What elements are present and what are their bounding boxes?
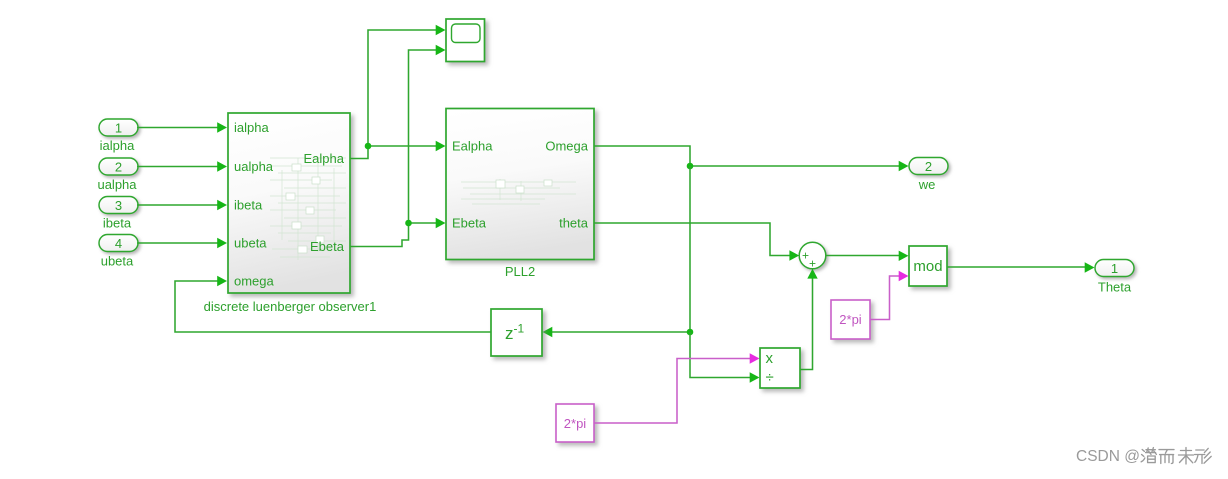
- wire inport 1 to observer: [137, 122, 227, 132]
- wire 2*pi lower to divide: [594, 353, 760, 423]
- svg-text:ualpha: ualpha: [97, 177, 137, 192]
- wire 2*pi upper to mod: [870, 271, 909, 320]
- svg-text:Ealpha: Ealpha: [304, 151, 345, 166]
- scope block: [446, 19, 485, 62]
- junction dot delay: [687, 329, 694, 336]
- svg-text:we: we: [918, 177, 936, 192]
- wire inport 2 to observer: [137, 161, 227, 171]
- svg-text:mod: mod: [913, 258, 942, 275]
- junction dot Ealpha: [365, 143, 372, 150]
- wire sum to mod: [826, 251, 909, 261]
- ghost contents PLL2: [461, 179, 576, 204]
- svg-text:discrete luenberger observer1: discrete luenberger observer1: [204, 299, 377, 314]
- svg-text:PLL2: PLL2: [505, 264, 535, 279]
- svg-text:4: 4: [115, 236, 122, 251]
- svg-text:Ealpha: Ealpha: [452, 139, 493, 154]
- sum block: [799, 242, 826, 269]
- svg-text:+: +: [809, 257, 816, 271]
- inport 3: [99, 197, 138, 214]
- svg-text:Ebeta: Ebeta: [310, 239, 345, 254]
- block mod: [909, 246, 947, 286]
- wire mod to outport Theta: [947, 262, 1095, 272]
- svg-text:2*pi: 2*pi: [564, 416, 587, 431]
- svg-text:Omega: Omega: [545, 139, 588, 154]
- block PLL2: [446, 109, 594, 260]
- outport we: [909, 158, 948, 175]
- wire to outport we: [690, 161, 909, 171]
- wire Ealpha out: [350, 146, 368, 159]
- svg-text:ibeta: ibeta: [103, 216, 132, 231]
- svg-text:ubeta: ubeta: [101, 254, 134, 269]
- wire Ebeta out: [350, 223, 409, 247]
- wire unit delay to omega: [175, 276, 491, 332]
- wire theta to sum: [594, 223, 799, 261]
- ghost contents observer: [270, 158, 346, 260]
- svg-text:ialpha: ialpha: [234, 120, 269, 135]
- svg-text:omega: omega: [234, 274, 275, 289]
- constant 2*pi lower: [556, 404, 594, 442]
- inport 4: [99, 235, 138, 252]
- svg-text:theta: theta: [559, 216, 589, 231]
- wire to PLL2 Ealpha: [368, 141, 446, 151]
- svg-text:÷: ÷: [766, 369, 774, 386]
- svg-text:-1: -1: [514, 322, 525, 336]
- scope screen: [452, 24, 481, 43]
- svg-text:2: 2: [115, 159, 122, 174]
- svg-text:Theta: Theta: [1098, 280, 1132, 295]
- svg-text:ialpha: ialpha: [100, 138, 135, 153]
- wire inport 3 to observer: [137, 200, 227, 210]
- wire to unit delay: [543, 327, 691, 337]
- block discrete luenberger observer1: [228, 113, 350, 293]
- block divide: [760, 348, 800, 388]
- wire to scope input2: [409, 45, 446, 223]
- junction dot Ebeta: [405, 220, 412, 227]
- svg-text:1: 1: [1111, 261, 1118, 276]
- svg-text:CSDN @: CSDN @: [1076, 448, 1140, 465]
- outport Theta: [1095, 260, 1134, 277]
- wire down to divide input: [690, 332, 760, 383]
- svg-text:3: 3: [115, 198, 122, 213]
- svg-text:1: 1: [115, 120, 122, 135]
- constant 2*pi upper: [831, 300, 870, 339]
- svg-text:ibeta: ibeta: [234, 198, 263, 213]
- wire inport 4 to observer: [137, 238, 227, 248]
- wire to PLL2 Ebeta: [409, 218, 446, 228]
- svg-text:x: x: [766, 350, 774, 367]
- wire divide to sum: [800, 269, 818, 370]
- junction dot we: [687, 163, 694, 170]
- inport 2: [99, 158, 138, 175]
- wire down to delay junction: [689, 166, 691, 332]
- svg-text:2*pi: 2*pi: [839, 312, 862, 327]
- wire Omega out: [594, 146, 690, 166]
- svg-text:2: 2: [925, 159, 932, 174]
- svg-text:ubeta: ubeta: [234, 236, 267, 251]
- watermark CJK glyphs: [1141, 448, 1211, 465]
- svg-text:z: z: [505, 324, 514, 343]
- inport 1: [99, 119, 138, 136]
- svg-text:+: +: [802, 249, 809, 263]
- svg-text:Ebeta: Ebeta: [452, 216, 487, 231]
- wire to scope input1: [368, 25, 446, 146]
- svg-text:ualpha: ualpha: [234, 159, 274, 174]
- block unit delay z-1: [491, 309, 542, 356]
